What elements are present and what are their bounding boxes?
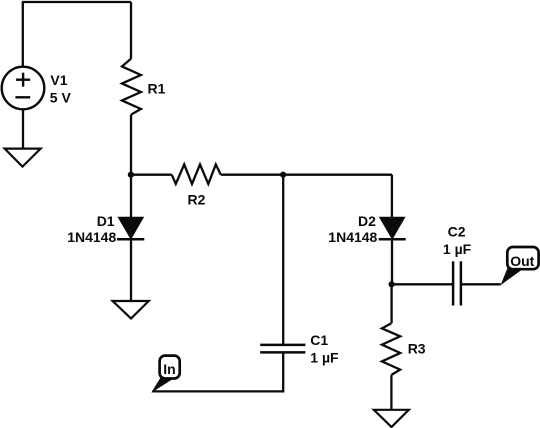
resistor R1 xyxy=(122,59,141,115)
resistor R3 xyxy=(382,323,400,375)
ground below D1 xyxy=(113,301,149,319)
wire node C to R3 xyxy=(390,284,392,323)
port In xyxy=(151,356,179,393)
capacitor C1 xyxy=(260,345,305,353)
svg-text:C2: C2 xyxy=(448,224,466,240)
svg-text:R3: R3 xyxy=(408,341,426,357)
wire node A to R2 xyxy=(131,174,172,176)
svg-text:D1: D1 xyxy=(97,213,115,229)
wire down to D2 xyxy=(391,175,393,218)
wire node C to C2 xyxy=(392,283,453,285)
diode D1 xyxy=(117,217,144,239)
wire R2 right to D2 branch corner xyxy=(221,174,392,176)
svg-text:5 V: 5 V xyxy=(50,90,72,106)
port Out xyxy=(501,247,539,285)
wire C2 to Out port xyxy=(462,283,501,285)
node A junction dot xyxy=(128,172,134,178)
ground below V1 xyxy=(5,149,41,167)
wire left drop to V1 xyxy=(22,2,24,67)
wire D2 to node C xyxy=(391,239,393,284)
svg-text:R2: R2 xyxy=(188,192,206,208)
voltage source V1 xyxy=(2,67,45,110)
resistor R2 xyxy=(172,164,221,184)
svg-text:1N4148: 1N4148 xyxy=(328,229,377,245)
wire R3 to ground xyxy=(390,375,392,410)
svg-text:In: In xyxy=(163,361,175,377)
node B junction dot xyxy=(280,172,286,178)
svg-text:D2: D2 xyxy=(358,213,376,229)
wire D1 to ground xyxy=(130,239,132,301)
wire C1 bottom to In run xyxy=(152,352,283,391)
wire right drop to R1 xyxy=(130,2,132,59)
capacitor C2 xyxy=(453,261,461,305)
svg-text:1 µF: 1 µF xyxy=(310,350,339,366)
ground below R3 xyxy=(374,410,409,427)
svg-text:1N4148: 1N4148 xyxy=(67,229,116,245)
svg-text:1 µF: 1 µF xyxy=(443,241,472,257)
svg-text:Out: Out xyxy=(510,253,534,269)
wire top rail xyxy=(22,1,131,3)
wire node B down to C1 xyxy=(282,175,284,345)
diode D2 xyxy=(379,217,406,239)
node C junction dot xyxy=(389,281,395,287)
wire V1 to ground xyxy=(22,109,24,148)
svg-text:R1: R1 xyxy=(148,80,166,96)
svg-text:V1: V1 xyxy=(50,72,67,88)
wire R1 bottom to node A and D1 xyxy=(130,115,132,218)
svg-text:C1: C1 xyxy=(310,332,328,348)
